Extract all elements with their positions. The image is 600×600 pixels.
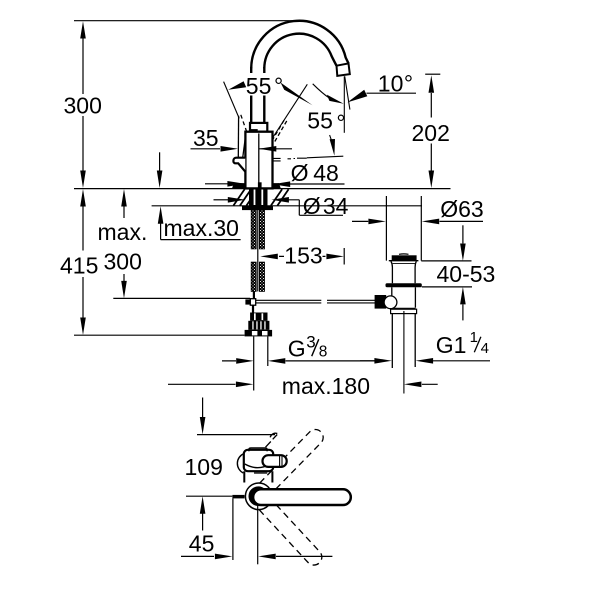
svg-text:40-53: 40-53 bbox=[437, 261, 496, 287]
dim Ø34 leader bbox=[214, 199, 229, 201]
bottom reference line (415 dim) bbox=[74, 334, 245, 336]
leader dash-dot to right bbox=[288, 157, 307, 160]
pop-up rod linkage: vertical stub bbox=[252, 291, 255, 312]
svg-text:300: 300 bbox=[64, 93, 102, 119]
svg-text:55°: 55° bbox=[246, 73, 283, 99]
dim 153 right extension line bbox=[343, 248, 345, 265]
svg-text:Ø48: Ø48 bbox=[291, 160, 339, 186]
hub level extension line bbox=[186, 495, 232, 497]
dim 202 vertical bbox=[430, 93, 432, 171]
hub center extension line bbox=[257, 503, 259, 564]
tailpipe bbox=[392, 314, 415, 368]
dim Ø48 leader bbox=[205, 183, 234, 185]
dim max300 arrow down bbox=[121, 281, 127, 299]
ray A (55 deg left extension) bbox=[224, 82, 240, 119]
outlet vertical reference line bbox=[343, 76, 345, 133]
pop-up rod front bbox=[258, 133, 260, 182]
top reference line (300 dim) bbox=[74, 20, 297, 22]
dim 415 arrow up at deck bbox=[80, 189, 86, 207]
hose tails bbox=[254, 336, 268, 390]
supply hoses lower segment bbox=[251, 262, 256, 291]
waste body bbox=[392, 287, 416, 307]
rod depth reference line bbox=[113, 297, 250, 299]
phantom handle left: lower right edge bbox=[243, 134, 246, 158]
dim max300 vertical line bbox=[123, 206, 125, 281]
svg-text:Ø34: Ø34 bbox=[303, 193, 349, 219]
dim 415 arrow down bbox=[80, 318, 86, 336]
lever (upper bar) bbox=[263, 455, 287, 467]
svg-text:415: 415 bbox=[60, 252, 98, 278]
drain: Ø63 extension lines bbox=[386, 196, 421, 261]
head lower inner line bbox=[254, 472, 267, 474]
55 left arrow 1 bbox=[228, 81, 246, 90]
dim Ø63 bbox=[352, 220, 483, 222]
top extension line (spout tip) bbox=[197, 434, 275, 436]
svg-text:G: G bbox=[288, 335, 306, 361]
dim 35 bbox=[191, 148, 221, 150]
spout riser tube walls bbox=[251, 67, 264, 123]
svg-text:Ø63: Ø63 bbox=[440, 196, 483, 222]
svg-text:153: 153 bbox=[284, 243, 322, 269]
horizontal pop-up rod bbox=[256, 300, 376, 303]
bottom nut bbox=[245, 330, 273, 337]
svg-text:55°: 55° bbox=[307, 108, 345, 136]
inner arc in head bbox=[245, 464, 271, 468]
svg-text:G1: G1 bbox=[436, 332, 467, 358]
pop-up rod below deck bbox=[257, 210, 259, 291]
dim 202 top extension line bbox=[425, 73, 440, 75]
swivel arc D with arrow bbox=[313, 84, 330, 98]
phantom handle right: dashed bar bbox=[272, 119, 285, 141]
tab bar in plan bbox=[232, 495, 244, 499]
svg-text:10°: 10° bbox=[378, 71, 413, 97]
lever joint lines bbox=[280, 456, 282, 467]
spout outer arc bbox=[251, 21, 348, 69]
supply hoses upper segment bbox=[251, 210, 256, 249]
spout inner arc bbox=[264, 34, 336, 69]
dim G1 1/4 bbox=[360, 360, 490, 362]
dim 109 vertical + arrows bbox=[202, 398, 204, 425]
dim 415 vertical line bbox=[82, 206, 84, 318]
svg-text:1: 1 bbox=[470, 329, 478, 346]
dim max30 arrow down above deck bbox=[159, 152, 161, 171]
deck hatching left of hole bbox=[233, 189, 257, 205]
left side tab (lever) bbox=[233, 158, 245, 172]
head left bulge bbox=[237, 454, 243, 473]
mounting nut below deck bbox=[249, 189, 268, 206]
deck hatching right of hole bbox=[271, 189, 289, 205]
svg-text:max.30: max.30 bbox=[164, 215, 239, 241]
outlet tilted 10deg line bbox=[345, 76, 350, 109]
tab extension line down bbox=[232, 498, 234, 560]
deck bottom line bbox=[152, 205, 422, 207]
extra phantom dashes near ext line bbox=[266, 435, 278, 448]
dim G3/8 bbox=[222, 360, 380, 362]
tailpipe centerline extension bbox=[403, 311, 405, 394]
hub outer circle bbox=[245, 483, 272, 510]
handle knob on top bbox=[250, 129, 258, 132]
flange black band bbox=[386, 283, 422, 287]
55R second arrow pointing down at leader bbox=[330, 135, 332, 140]
spout (lower bar) bbox=[253, 489, 351, 505]
head bump bbox=[249, 448, 267, 451]
svg-text:max.: max. bbox=[98, 219, 148, 245]
neck taper bbox=[391, 261, 416, 283]
aerator tip bbox=[337, 63, 350, 76]
55 left long arrow crossing ray C bbox=[281, 83, 313, 106]
svg-text:35: 35 bbox=[193, 125, 219, 151]
dim 40-53 upper arrow bbox=[462, 225, 464, 243]
right side tab lines bbox=[273, 158, 281, 161]
svg-text:4: 4 bbox=[481, 340, 489, 357]
body bbox=[245, 132, 272, 189]
flange extension bbox=[422, 286, 472, 288]
svg-text:300: 300 bbox=[104, 249, 142, 275]
ball housing bbox=[384, 296, 397, 309]
washer bbox=[242, 206, 273, 210]
dim 45 bbox=[181, 555, 332, 557]
dim max180 bbox=[168, 383, 438, 385]
linkage knob at drain bbox=[375, 295, 387, 309]
dim 300 arrow down bbox=[80, 171, 86, 189]
head lower part bbox=[244, 471, 272, 482]
phantom handle left: dashed edge bbox=[241, 115, 247, 132]
cap brim line bbox=[389, 260, 419, 262]
svg-text:109: 109 bbox=[185, 454, 223, 480]
10deg leader with arrow bbox=[367, 92, 417, 94]
dim 300 vertical line bbox=[82, 37, 84, 171]
ray C (55 deg right extension) bbox=[273, 84, 308, 137]
cross fitting bbox=[245, 299, 250, 304]
head outline bbox=[244, 450, 273, 471]
dim max30 arrow up below deck with bracket bbox=[161, 224, 241, 240]
phantom handle left: solid edge bbox=[237, 116, 239, 158]
svg-text:45: 45 bbox=[189, 531, 215, 557]
body bottom rim bbox=[392, 307, 416, 309]
collar bbox=[250, 123, 267, 132]
phantom lever upper (dashed) bbox=[252, 430, 323, 502]
threaded section bbox=[248, 321, 269, 330]
dim 153 bbox=[279, 255, 326, 257]
dim 300 arrow up bbox=[80, 21, 86, 38]
drain plug cap bbox=[399, 253, 409, 255]
deck top line bbox=[74, 188, 451, 190]
dim 40-53 lower arrow bbox=[462, 305, 464, 321]
escutcheon base (black trapezoid) bbox=[232, 183, 281, 188]
svg-text:max.180: max.180 bbox=[282, 373, 370, 399]
phantom lever lower (dashed) bbox=[252, 491, 322, 565]
hub C ring (black) bbox=[251, 489, 266, 504]
svg-text:8: 8 bbox=[319, 343, 328, 360]
shank block bbox=[250, 313, 267, 321]
svg-text:202: 202 bbox=[412, 120, 450, 146]
dim max300 arrow up at deck bbox=[121, 189, 127, 207]
cap underside extension bbox=[421, 260, 471, 262]
